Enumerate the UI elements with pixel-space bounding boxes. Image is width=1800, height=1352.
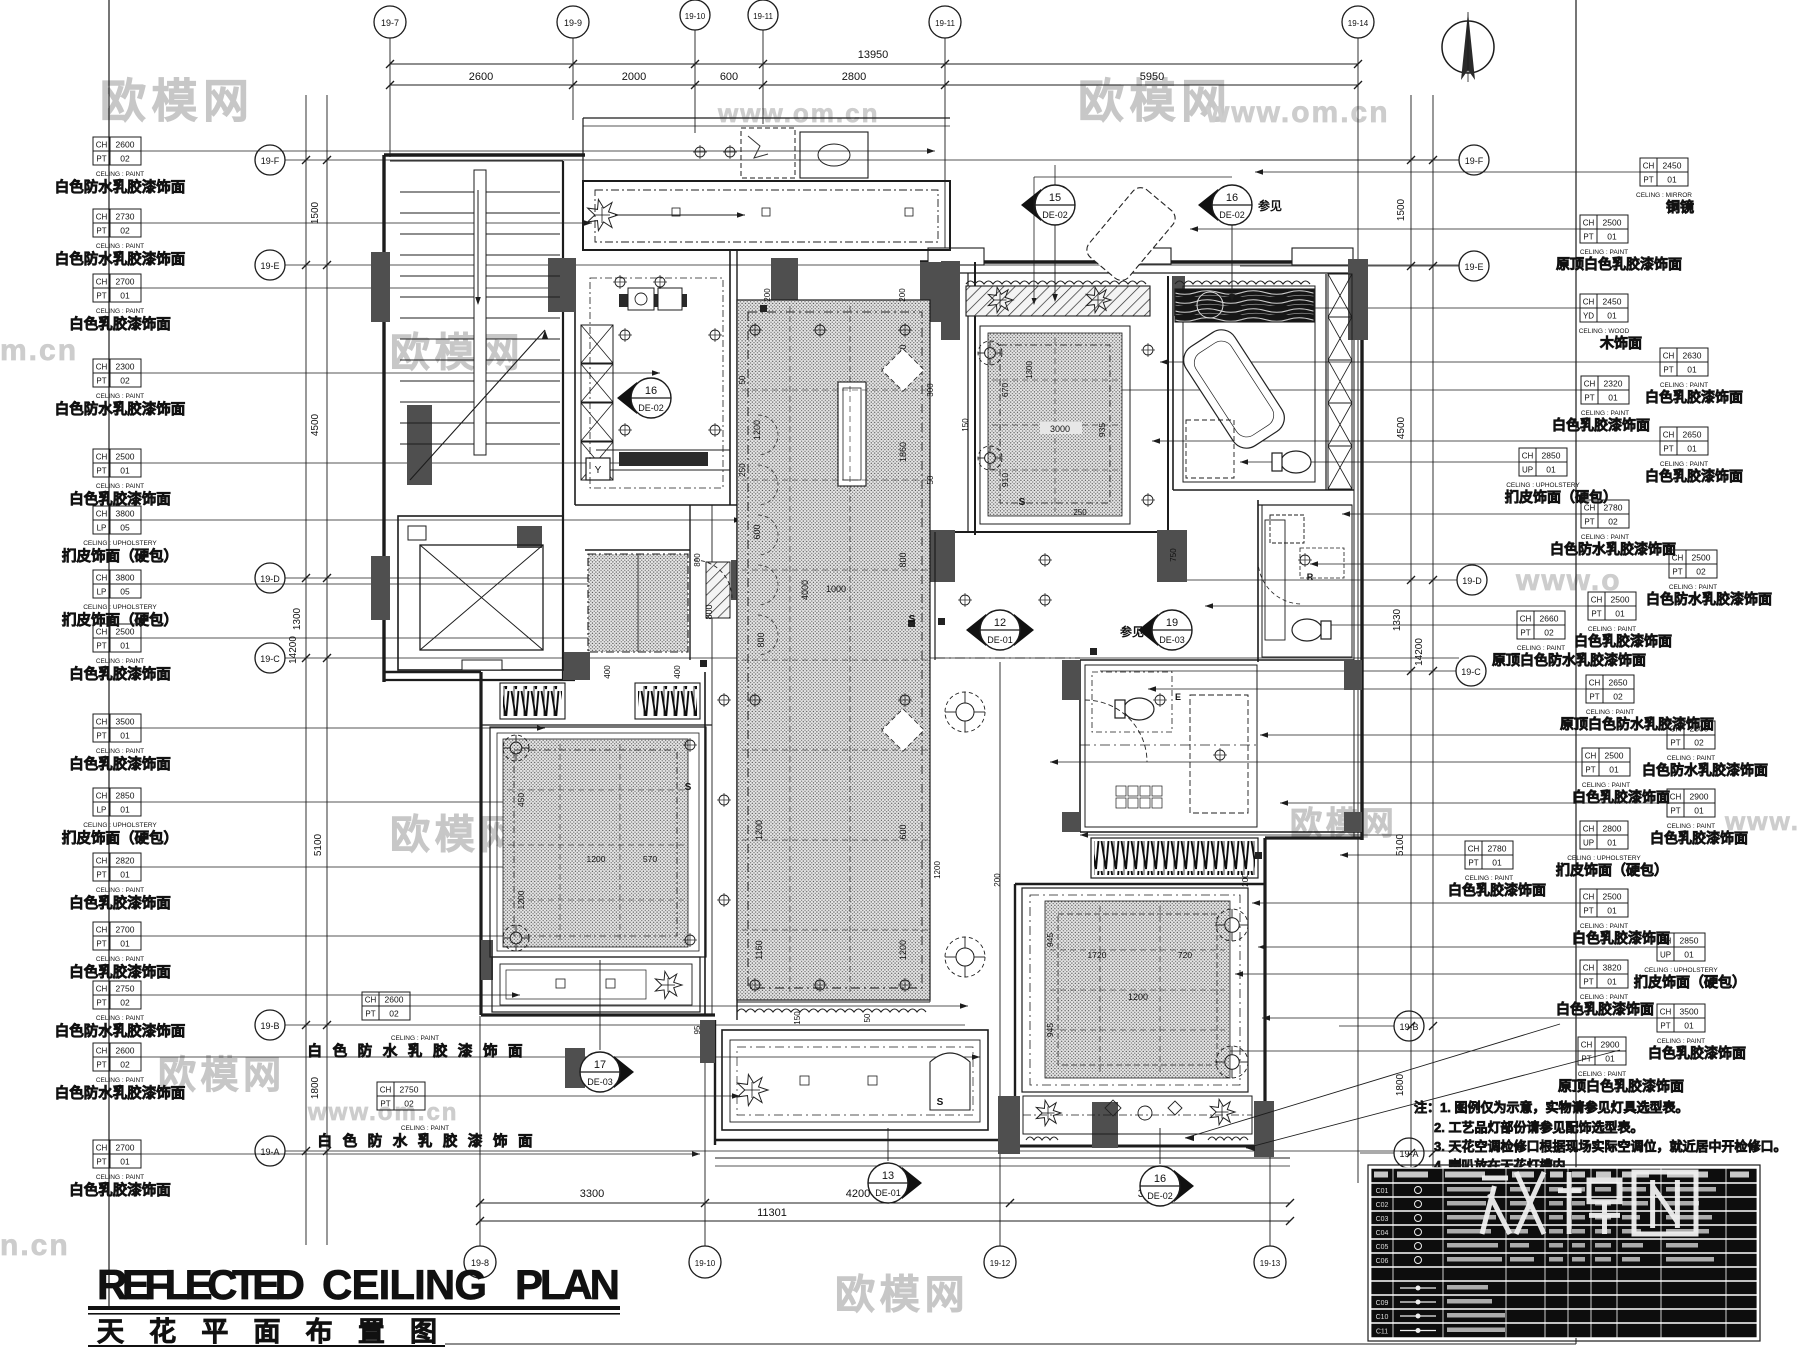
kitchen cabinets crosshatch	[581, 325, 613, 363]
svg-text:PT: PT	[96, 155, 106, 164]
svg-text:2300: 2300	[116, 362, 135, 372]
wall pier	[731, 560, 745, 600]
wall pier	[1157, 530, 1187, 582]
svg-text:5950: 5950	[1140, 71, 1164, 83]
stair treads	[400, 191, 560, 193]
detail marker 16/DE-02	[617, 382, 637, 414]
plant symbol	[1086, 287, 1111, 312]
svg-text:910: 910	[1000, 473, 1010, 487]
svg-text:CELING : PAINT: CELING : PAINT	[96, 658, 144, 665]
svg-text:C01: C01	[1376, 1188, 1389, 1195]
svg-text:19-9: 19-9	[564, 18, 582, 28]
junction box	[1090, 648, 1097, 655]
detail marker 19/DE-03	[1138, 614, 1158, 646]
svg-text:UP: UP	[1583, 839, 1594, 848]
leader line	[1205, 605, 1588, 607]
svg-text:www.om.cn: www.om.cn	[1205, 96, 1390, 129]
leader line	[1340, 854, 1465, 856]
grid line 19-D right	[1180, 579, 1457, 581]
svg-text:参见: 参见	[1258, 198, 1282, 213]
ceiling fan symbol	[1216, 909, 1248, 941]
svg-text:CELING : PAINT: CELING : PAINT	[96, 1077, 144, 1084]
svg-text:2320: 2320	[1604, 379, 1623, 389]
svg-text:1200: 1200	[754, 820, 764, 840]
svg-text:PT: PT	[96, 292, 106, 301]
svg-text:2650: 2650	[1683, 430, 1702, 440]
svg-text:铜镜: 铜镜	[1666, 199, 1694, 215]
leader line	[1190, 228, 1580, 230]
ceiling label CH 2700 left	[93, 922, 110, 936]
svg-text:01: 01	[1607, 977, 1617, 987]
svg-text:CELING : PAINT: CELING : PAINT	[96, 243, 144, 250]
svg-text:CELING : WOOD: CELING : WOOD	[1579, 328, 1630, 335]
svg-text:2600: 2600	[385, 995, 404, 1005]
junction box	[938, 618, 945, 625]
wall pier	[1062, 812, 1080, 832]
svg-text:www.om.cn: www.om.cn	[717, 98, 880, 128]
hall walls south	[711, 660, 713, 1015]
svg-text:1160: 1160	[754, 940, 764, 959]
svg-text:CH: CH	[96, 857, 108, 866]
scallop edge	[1208, 1137, 1248, 1140]
svg-text:扪皮饰面（硬包）: 扪皮饰面（硬包）	[62, 829, 178, 847]
svg-text:CELING : PAINT: CELING : PAINT	[1578, 1071, 1626, 1078]
svg-text:原顶白色乳胶漆饰面: 原顶白色乳胶漆饰面	[1558, 1078, 1684, 1094]
svg-text:PT: PT	[96, 1158, 106, 1167]
svg-text:3000: 3000	[1050, 424, 1070, 434]
svg-text:02: 02	[1696, 567, 1706, 577]
ceiling label CH 2500 right	[1582, 748, 1599, 762]
svg-text:2700: 2700	[116, 925, 135, 935]
legend big white watermark	[1482, 1172, 1544, 1234]
wardrobe zigzag right	[635, 683, 700, 719]
svg-text:1860: 1860	[898, 442, 908, 462]
leader line	[141, 1056, 980, 1058]
leader line	[1255, 171, 1640, 173]
wall pier	[371, 556, 390, 620]
svg-text:PT: PT	[1670, 739, 1680, 748]
living dining ceiling stipple area	[737, 300, 930, 1000]
bedroom1 internal dash grid	[508, 789, 684, 791]
living curtain arcs west	[758, 415, 778, 455]
mid bath inner dash rect	[1092, 672, 1172, 732]
svg-text:n.cn: n.cn	[0, 1229, 70, 1262]
svg-text:白色乳胶漆饰面: 白色乳胶漆饰面	[1645, 468, 1743, 484]
plant symbol	[1036, 1100, 1061, 1125]
svg-text:CELING : PAINT: CELING : PAINT	[401, 1125, 449, 1132]
svg-text:PT: PT	[1663, 445, 1673, 454]
grid bubble 19-A right	[1394, 1138, 1424, 1168]
svg-text:01: 01	[1694, 806, 1704, 816]
ceiling label CH 2700 left	[93, 1140, 110, 1154]
bedroom2 downlights	[1143, 345, 1153, 355]
ceiling label CH 3800 left	[93, 570, 110, 584]
svg-text:1200: 1200	[752, 420, 762, 440]
leader line	[1262, 1017, 1657, 1019]
svg-text:14200: 14200	[288, 636, 299, 664]
svg-text:R: R	[1307, 572, 1314, 582]
diag hatch strip	[966, 286, 1150, 316]
bottom dimension line segments	[480, 1202, 1290, 1204]
north arrow	[1442, 21, 1494, 73]
junction box	[700, 660, 707, 667]
mid bath lower room	[1085, 665, 1257, 827]
svg-text:白色乳胶漆饰面: 白色乳胶漆饰面	[69, 1181, 171, 1199]
svg-text:欧模网: 欧模网	[835, 1273, 969, 1317]
leader line	[1310, 563, 1669, 565]
svg-text:02: 02	[120, 1060, 130, 1070]
svg-text:05: 05	[120, 523, 130, 533]
ceiling label CH 2500 left	[93, 449, 110, 463]
wc door arcs	[1258, 560, 1302, 604]
svg-text:白色防水乳胶漆饰面: 白色防水乳胶漆饰面	[55, 400, 186, 418]
mid bath upper room	[1262, 505, 1352, 657]
svg-text:CELING : PAINT: CELING : PAINT	[1667, 823, 1715, 830]
leader line	[141, 287, 560, 289]
bedroom3 nested rects	[1022, 888, 1248, 1092]
terrace tub top-right	[1083, 184, 1179, 285]
terrace leader arrow	[615, 214, 745, 216]
svg-text:C06: C06	[1376, 1258, 1389, 1265]
ceiling fan symbol	[945, 937, 985, 977]
svg-text:CH: CH	[1583, 825, 1595, 834]
svg-text:01: 01	[120, 291, 130, 301]
svg-text:3500: 3500	[1680, 1007, 1699, 1017]
wall pier	[1254, 1101, 1274, 1157]
diagonal leader B	[1246, 1050, 1620, 1148]
svg-text:C10: C10	[1376, 1314, 1389, 1321]
svg-text:1500: 1500	[1396, 198, 1407, 221]
svg-text:400: 400	[673, 665, 682, 679]
ceiling label CH 3500 left	[93, 714, 110, 728]
svg-text:白色乳胶漆饰面: 白色乳胶漆饰面	[69, 665, 171, 683]
svg-text:2600: 2600	[116, 140, 135, 150]
svg-text:02: 02	[1608, 517, 1618, 527]
svg-text:1500: 1500	[310, 201, 321, 224]
leader line	[410, 1005, 968, 1007]
detail marker 17/DE-03	[614, 1056, 634, 1088]
svg-text:DE-02: DE-02	[1042, 210, 1068, 220]
detail marker 15/DE-02	[1021, 189, 1041, 221]
leader line	[141, 637, 648, 639]
bedroom1 light trough	[492, 957, 700, 1012]
svg-text:50: 50	[738, 375, 747, 384]
svg-text:PT: PT	[96, 999, 106, 1008]
svg-text:2000: 2000	[622, 71, 646, 83]
svg-text:CH: CH	[380, 1086, 392, 1095]
svg-text:13: 13	[882, 1170, 894, 1182]
svg-text:CH: CH	[1584, 380, 1596, 389]
svg-text:300: 300	[926, 383, 935, 397]
ceiling label CH 2500 right	[1588, 592, 1605, 606]
svg-text:白色防水乳胶漆饰面: 白色防水乳胶漆饰面	[55, 1084, 186, 1102]
svg-text:CELING : UPHOLSTERY: CELING : UPHOLSTERY	[1506, 482, 1580, 489]
bedroom3 internal dash grid	[1050, 949, 1225, 951]
svg-text:CELING : PAINT: CELING : PAINT	[96, 483, 144, 490]
svg-text:PT: PT	[365, 1010, 375, 1019]
leader rect top	[1034, 176, 1232, 178]
ceiling fan symbol	[978, 446, 1002, 470]
lower-left bedroom inner walls	[481, 724, 712, 726]
grid bubble 19-B right	[1394, 1011, 1424, 1041]
svg-text:600: 600	[898, 824, 908, 839]
elevator shaft	[398, 516, 563, 670]
bath top-right room	[1183, 286, 1315, 482]
svg-text:250: 250	[738, 463, 747, 477]
svg-text:CELING : PAINT: CELING : PAINT	[1581, 534, 1629, 541]
svg-text:C11: C11	[1376, 1329, 1388, 1336]
grid stem 19-8	[479, 1016, 481, 1246]
svg-text:CH: CH	[1584, 504, 1596, 513]
svg-text:2600: 2600	[116, 1046, 135, 1056]
right dimension chain	[1410, 95, 1412, 1245]
svg-text:2850: 2850	[116, 791, 135, 801]
svg-text:19: 19	[1166, 617, 1178, 629]
svg-text:DE-01: DE-01	[875, 1188, 901, 1198]
detail marker 16/DE-02	[1174, 1170, 1194, 1202]
grid bubble 19-13	[1254, 1246, 1286, 1278]
grid stem 19-14	[1357, 38, 1359, 1183]
svg-text:PT: PT	[96, 732, 106, 741]
svg-text:欧模网: 欧模网	[1290, 805, 1398, 841]
svg-text:01: 01	[1667, 175, 1677, 185]
grid bubble 19-9	[557, 6, 589, 38]
bedroom3 stipple	[1045, 901, 1230, 1078]
svg-text:CELING : PAINT: CELING : PAINT	[96, 393, 144, 400]
svg-text:800: 800	[704, 604, 714, 619]
junction box	[908, 620, 915, 627]
svg-text:白色乳胶漆饰面: 白色乳胶漆饰面	[1650, 830, 1748, 846]
svg-text:01: 01	[1684, 1021, 1694, 1031]
kitchen downlights	[615, 277, 625, 287]
svg-text:19-D: 19-D	[1462, 576, 1482, 586]
plant symbol	[738, 1074, 768, 1105]
svg-text:白色防水乳胶漆饰面: 白色防水乳胶漆饰面	[55, 1022, 186, 1040]
grid bubble 19-8	[464, 1246, 496, 1278]
svg-text:2660: 2660	[1540, 614, 1559, 624]
svg-text:19-F: 19-F	[261, 156, 280, 166]
svg-text:扪皮饰面（硬包）: 扪皮饰面（硬包）	[1505, 489, 1617, 505]
wall pier	[920, 262, 941, 322]
svg-text:2780: 2780	[1604, 503, 1623, 513]
svg-text:2500: 2500	[116, 627, 135, 637]
grid line 19-A	[285, 1150, 1459, 1152]
leader line	[1080, 834, 1580, 836]
svg-text:C05: C05	[1376, 1244, 1389, 1251]
bedroom1 downlights	[685, 740, 695, 750]
svg-text:CELING : UPHOLSTERY: CELING : UPHOLSTERY	[83, 604, 157, 611]
grid bubble 19-14	[1342, 6, 1374, 38]
leader line	[1152, 440, 1660, 442]
grid line 19-B	[285, 1024, 965, 1026]
svg-text:木饰面: 木饰面	[1599, 335, 1642, 351]
svg-text:CH: CH	[1670, 793, 1682, 802]
svg-text:01: 01	[1605, 1054, 1615, 1064]
wall bottom terrace block	[715, 1139, 1015, 1141]
svg-text:E: E	[1175, 692, 1181, 702]
svg-text:扪皮饰面（硬包）: 扪皮饰面（硬包）	[1556, 862, 1668, 878]
svg-text:Y: Y	[595, 465, 602, 476]
svg-text:PT: PT	[1583, 907, 1593, 916]
svg-text:CELING : PAINT: CELING : PAINT	[1657, 1038, 1705, 1045]
ceiling label CH 3500 right	[1657, 1004, 1674, 1018]
leader line	[141, 866, 620, 868]
top dimension line segments	[390, 84, 1358, 86]
wall right outer	[1360, 262, 1363, 840]
svg-text:11301: 11301	[757, 1207, 787, 1219]
svg-text:01: 01	[120, 1157, 130, 1167]
svg-text:UP: UP	[1522, 466, 1533, 475]
svg-text:01: 01	[1607, 906, 1617, 916]
diagonal leader A	[1185, 1024, 1560, 1138]
ceiling label CH 2500 right	[1669, 550, 1686, 564]
ceiling label CH 2650 right	[1660, 427, 1677, 441]
svg-text:16: 16	[1226, 192, 1238, 204]
ceiling label CH 2600 left	[93, 137, 110, 151]
svg-text:16: 16	[645, 385, 657, 397]
svg-text:2500: 2500	[1611, 595, 1630, 605]
wall pier	[1348, 259, 1368, 340]
svg-text:02: 02	[1544, 628, 1554, 638]
leader line	[141, 150, 935, 152]
bedroom1 dashed inner	[514, 750, 677, 936]
ceiling label CH 2900 right	[1578, 1037, 1595, 1051]
ceiling fan symbol	[978, 341, 1002, 365]
kitchen sink	[628, 288, 654, 310]
grid bubble 19-F left	[255, 145, 285, 175]
kitchen walls	[574, 262, 576, 505]
wall pier	[925, 530, 955, 582]
svg-text:2700: 2700	[116, 277, 135, 287]
svg-text:CH: CH	[1643, 162, 1655, 171]
svg-text:15: 15	[1049, 192, 1061, 204]
svg-text:CH: CH	[1468, 845, 1480, 854]
kitchen dashed ceiling border	[590, 278, 723, 488]
grid bubble 19-C left	[255, 643, 285, 673]
svg-text:PT: PT	[96, 467, 106, 476]
svg-text:01: 01	[120, 870, 130, 880]
scallop edge	[1175, 281, 1310, 284]
svg-text:1200: 1200	[516, 890, 526, 909]
mid bath counter	[1265, 520, 1285, 640]
ceiling label CH 2850 right	[1519, 448, 1536, 462]
wall pier	[1062, 660, 1080, 700]
sheet left vertical line	[108, 0, 110, 1310]
svg-text:19-B: 19-B	[260, 1021, 279, 1031]
svg-text:S: S	[685, 782, 692, 793]
top dimension line total	[390, 63, 1358, 65]
stair break line	[410, 330, 545, 480]
ceiling label CH 2500 left	[93, 624, 110, 638]
kitchen counter appliance bottom	[619, 452, 708, 466]
ceiling fan symbol	[1216, 1046, 1248, 1078]
bottom-right bedroom walls	[1014, 884, 1016, 1146]
ceiling fan symbol	[503, 735, 529, 761]
grid line 19-F	[285, 159, 1459, 161]
svg-text:CH: CH	[96, 1144, 108, 1153]
svg-text:2500: 2500	[1690, 724, 1709, 734]
svg-text:PT: PT	[1643, 176, 1653, 185]
svg-text:CH: CH	[1583, 298, 1595, 307]
svg-text:19-12: 19-12	[990, 1259, 1011, 1268]
window sill top wing 3	[1292, 248, 1353, 265]
ceiling label CH 2500 right	[1580, 215, 1597, 229]
svg-text:CELING : PAINT: CELING : PAINT	[1465, 875, 1513, 882]
bedroom3 inner dashed	[1058, 914, 1217, 1065]
living inner dashed border	[748, 312, 922, 988]
grid stem 19-7	[389, 38, 391, 157]
svg-text:PT: PT	[1584, 518, 1594, 527]
top washbasin	[800, 132, 868, 178]
svg-text:欧模网: 欧模网	[100, 75, 255, 127]
svg-text:1200: 1200	[898, 940, 908, 960]
wall right of bottom bedroom	[1263, 838, 1266, 1152]
svg-text:2500: 2500	[1603, 892, 1622, 902]
leader line	[425, 1095, 740, 1097]
svg-text:2450: 2450	[1603, 297, 1622, 307]
leader line	[141, 222, 592, 224]
svg-text:2850: 2850	[1542, 451, 1561, 461]
detail marker 16/DE-02	[1198, 189, 1218, 221]
leader line	[1260, 734, 1667, 736]
svg-text:PT: PT	[96, 227, 106, 236]
svg-text:CH: CH	[96, 718, 108, 727]
Y box	[586, 458, 610, 480]
svg-text:CH: CH	[1585, 752, 1597, 761]
svg-text:19-E: 19-E	[1464, 262, 1483, 272]
svg-text:945: 945	[1045, 1023, 1055, 1037]
svg-text:19-7: 19-7	[381, 18, 399, 28]
svg-text:PT: PT	[1660, 1022, 1670, 1031]
svg-text:PLAN: PLAN	[515, 1261, 620, 1308]
grid bubble 19-7	[374, 6, 406, 38]
leader line	[1258, 946, 1657, 948]
living internal grid dashed	[742, 389, 928, 391]
elevator door	[462, 660, 502, 670]
leader line	[1205, 307, 1580, 309]
svg-text:2630: 2630	[1683, 351, 1702, 361]
svg-text:CELING : UPHOLSTERY: CELING : UPHOLSTERY	[1567, 855, 1641, 862]
svg-text:PT: PT	[96, 871, 106, 880]
svg-text:2650: 2650	[1609, 678, 1628, 688]
kitchen counter appliance top	[619, 294, 687, 307]
toilet	[1115, 698, 1154, 720]
leader line	[141, 372, 660, 374]
ceiling label CH 2800 right	[1580, 821, 1597, 835]
svg-text:14200: 14200	[1414, 638, 1425, 666]
leader line	[141, 583, 600, 585]
svg-text:PT: PT	[1589, 693, 1599, 702]
svg-text:CH: CH	[1660, 1008, 1672, 1017]
svg-text:CH: CH	[1581, 1041, 1593, 1050]
ceiling label CH 2650 right	[1586, 675, 1603, 689]
sheet right vertical line	[1575, 0, 1577, 1338]
wall top of right wing	[920, 260, 1368, 263]
mid bath walls	[1257, 500, 1259, 662]
svg-text:01: 01	[1684, 950, 1694, 960]
svg-text:CELING : PAINT: CELING : PAINT	[96, 887, 144, 894]
svg-text:01: 01	[1546, 465, 1556, 475]
grid stem 19-12	[944, 38, 946, 254]
svg-text:CH: CH	[1583, 219, 1595, 228]
ceiling label CH 2660 right	[1517, 611, 1534, 625]
svg-text:CH: CH	[96, 278, 108, 287]
svg-text:DE-02: DE-02	[1147, 1191, 1173, 1201]
svg-text:19-E: 19-E	[260, 261, 279, 271]
svg-text:白色乳胶漆饰面: 白色乳胶漆饰面	[1448, 882, 1546, 898]
grid stem 19-12 bottom	[999, 662, 1001, 1246]
svg-text:1800: 1800	[1395, 1073, 1406, 1096]
